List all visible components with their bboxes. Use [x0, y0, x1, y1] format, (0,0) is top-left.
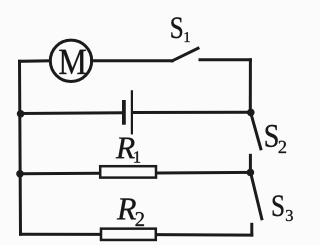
wire left rail — [20, 61, 21, 234]
label M (motor) — [59, 50, 86, 74]
label R2 subscript 2 — [136, 212, 144, 226]
label S2 subscript 2 — [279, 141, 286, 153]
wire top row left — [20, 59, 51, 63]
wire battery row left — [20, 111, 122, 115]
wire motor to S1 — [92, 59, 173, 62]
battery long plate (positive) — [131, 91, 133, 133]
label S1 subscript 1 — [185, 32, 190, 42]
wire R1 row left — [20, 172, 99, 176]
battery short plate (negative) — [122, 102, 126, 123]
wire R2 row left — [21, 233, 100, 236]
label S3 — [273, 195, 284, 216]
switch S3 fixed contact stub — [250, 224, 253, 235]
resistor R1 — [100, 166, 156, 177]
motor M — [50, 40, 91, 81]
label S2 — [266, 125, 278, 147]
switch S2 fixed contact stub — [249, 155, 252, 172]
resistor R2 — [101, 229, 156, 240]
node battery row / left rail — [17, 110, 25, 118]
wire right rail top — [249, 60, 252, 112]
wire battery row right — [133, 111, 250, 114]
node R1 row / S3 pivot — [247, 169, 255, 177]
switch S2 lever — [251, 112, 261, 149]
wire R2 row right — [157, 233, 252, 237]
label S3 subscript 3 — [286, 210, 293, 221]
node R1 row / left rail — [16, 170, 24, 178]
wire S1 to top right corner — [200, 58, 250, 61]
label S1 — [171, 17, 182, 38]
node battery row / S2 pivot — [247, 109, 255, 117]
switch S3 lever — [251, 173, 262, 219]
label R2 — [117, 198, 136, 219]
switch S1 lever — [172, 48, 198, 61]
wire R1 row right — [157, 171, 250, 175]
label R1 — [116, 138, 135, 159]
label R1 subscript 1 — [134, 151, 140, 162]
